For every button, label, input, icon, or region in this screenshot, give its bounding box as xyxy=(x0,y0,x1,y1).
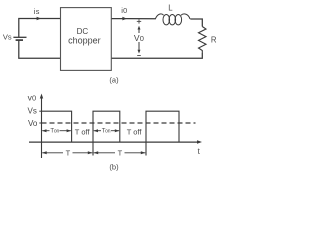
svg-text:Vs: Vs xyxy=(3,32,12,41)
svg-text:(b): (b) xyxy=(109,163,119,172)
V0 marker minus xyxy=(137,55,141,57)
tick Vs level xyxy=(39,110,41,112)
svg-text:T: T xyxy=(118,148,123,157)
svg-text:chopper: chopper xyxy=(68,35,101,45)
pulse 3 xyxy=(146,111,179,155)
current arrow i0 xyxy=(122,17,126,21)
Ton arrow pulse2 xyxy=(94,130,119,132)
wire bottom-right (load to chopper) xyxy=(111,53,202,58)
svg-text:is: is xyxy=(34,7,40,16)
dashed average line Vo xyxy=(42,122,196,124)
svg-text:R: R xyxy=(211,35,217,44)
svg-text:T off: T off xyxy=(127,128,143,137)
Ton arrow pulse1 xyxy=(42,130,71,132)
svg-text:(a): (a) xyxy=(109,75,119,84)
svg-text:Ton: Ton xyxy=(102,129,111,135)
DC chopper box U1 xyxy=(61,8,112,71)
current arrow iS xyxy=(37,17,41,21)
inductor L1 coil xyxy=(155,14,190,25)
battery Vs xyxy=(13,37,26,40)
svg-text:t: t xyxy=(198,147,201,156)
resistor R1 zigzag xyxy=(199,27,207,54)
wire inductor to load corner xyxy=(190,19,202,27)
pulse 1 xyxy=(42,111,72,142)
svg-text:Ton: Ton xyxy=(50,129,59,135)
svg-text:V0: V0 xyxy=(134,33,144,43)
axis v (vertical) xyxy=(40,94,43,159)
V0 marker plus xyxy=(137,19,141,23)
tick Vo level xyxy=(39,122,41,124)
svg-text:i0: i0 xyxy=(121,6,127,15)
svg-text:v0: v0 xyxy=(28,92,37,102)
wire top-left (battery to chopper) xyxy=(19,19,61,38)
V0 marker up arrow xyxy=(138,26,141,33)
wire top-right (chopper to inductor) xyxy=(111,18,156,20)
V0 marker down arrow xyxy=(138,42,141,54)
wire bottom-left (battery to chopper) xyxy=(19,40,61,58)
svg-text:T: T xyxy=(66,148,71,157)
svg-text:Vo: Vo xyxy=(28,119,38,128)
svg-text:L: L xyxy=(168,3,173,12)
pulse 2 xyxy=(93,111,120,155)
svg-text:Vs: Vs xyxy=(28,106,37,115)
period dimension line 1 xyxy=(42,152,92,154)
period dimension line 2 xyxy=(94,152,146,154)
axis t (horizontal) xyxy=(29,140,202,143)
svg-text:T off: T off xyxy=(75,128,91,137)
